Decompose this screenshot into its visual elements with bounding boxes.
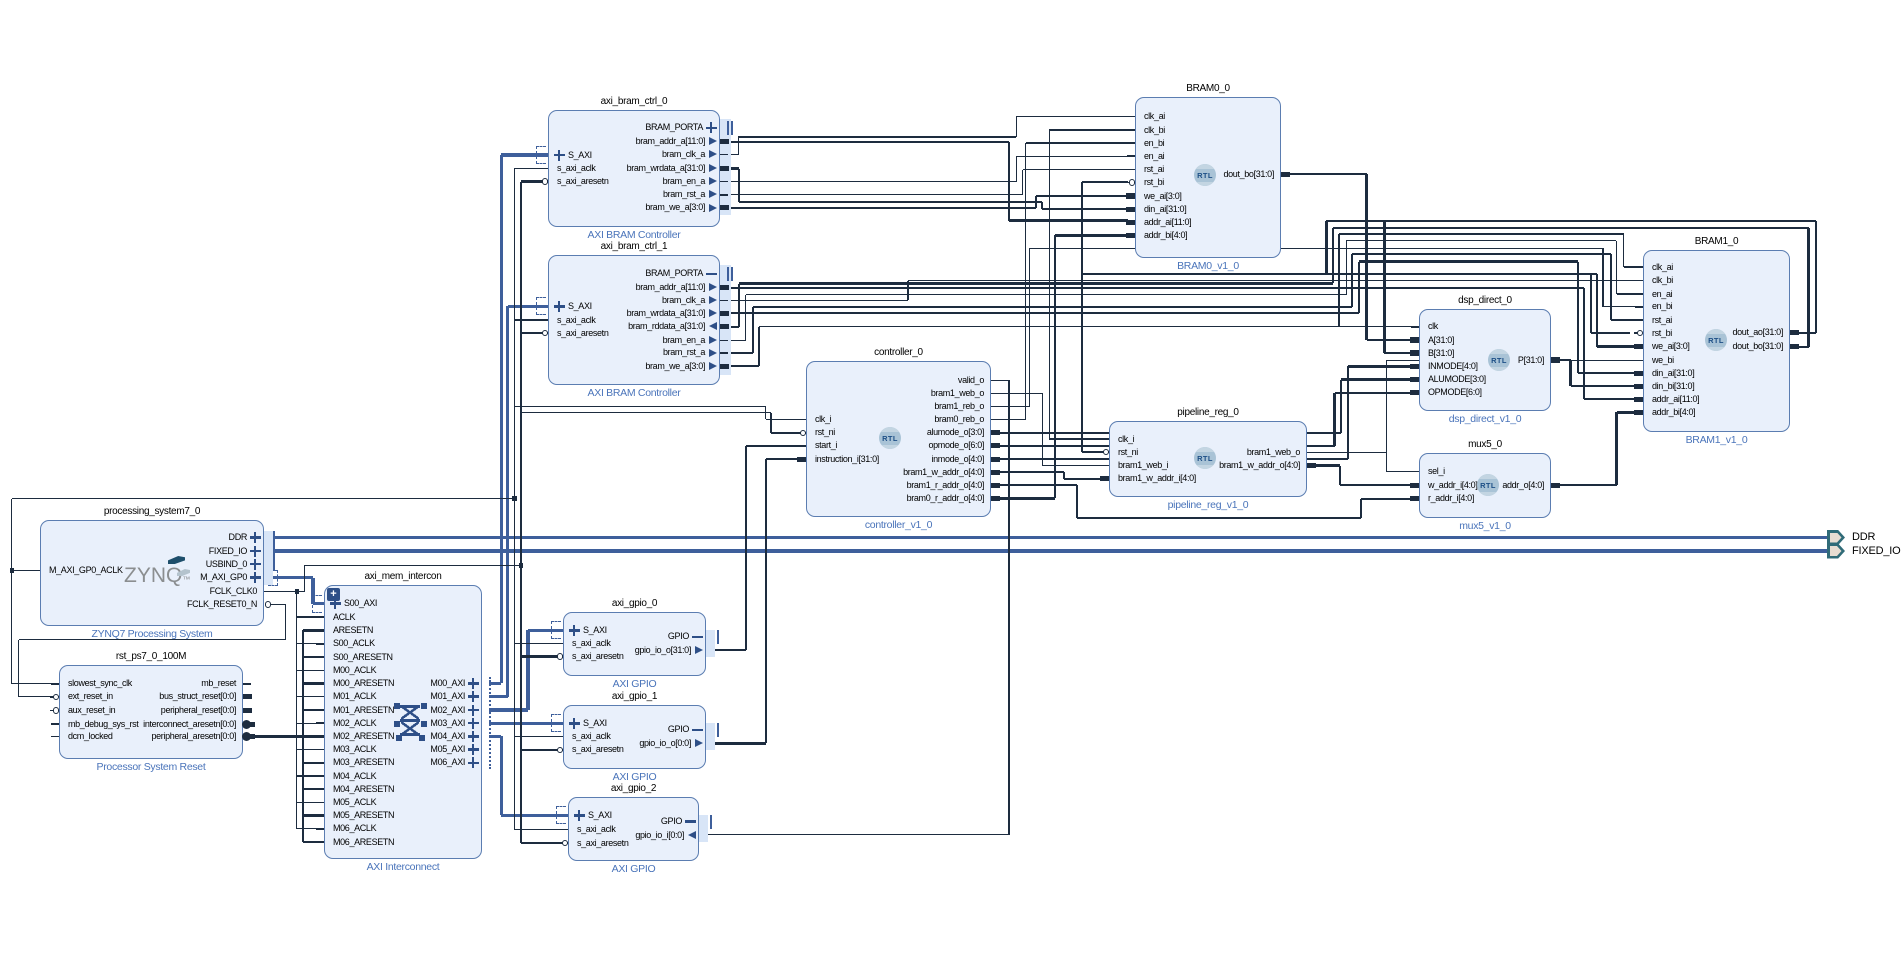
wire bram_ctrl_0 clk to BRAM0 clk_ai <box>0 0 1902 1</box>
wire controller bram0_r_addr_o to BRAM0 addr_bi <box>0 0 1902 1</box>
wire s_axi_aclk distribution <box>0 0 1902 1</box>
wire controller alumode_o to dsp ALUMODE <box>0 0 1902 1</box>
wire BRAM1 we_ai feed <box>0 0 1902 1</box>
wire bram_ctrl_1 rst to BRAM1 rst_ai <box>0 0 1902 1</box>
wire clk_ai feed BRAM1 <box>0 0 1902 1</box>
wire mux addr_o to BRAM1 addr_bi <box>0 0 1902 1</box>
wire controller bram0_reb_o to BRAM0 en_bi <box>0 0 1902 1</box>
wire bram_ctrl_1 clk to BRAM1 clk_bi <box>0 0 1902 1</box>
wire gpio_0 gpio_io_o to start_i <box>0 0 1902 1</box>
block rst_ps7_0_100M (rst_ps7_0_100M) <box>0 0 1902 1</box>
wire clock net BRAM0 clk_bi / dsp clk / pipeline clk_i <box>0 0 1902 1</box>
wire peripheral_aresetn to ARESETN pins <box>0 0 1902 1</box>
wire BRAM1 dout_bo return to bram_ctrl_1 rddata <box>0 0 1902 1</box>
block axi_mem_intercon (axi_mem_intercon) <box>0 0 1902 1</box>
interface shade axi_gpio_2 <box>699 815 708 842</box>
block controller_0 (controller_0) <box>0 0 1902 1</box>
wire controller opmode_o to dsp OPMODE <box>0 0 1902 1</box>
block axi_gpio_2 (axi_gpio_2) <box>0 0 1902 1</box>
block axi_gpio_0 (axi_gpio_0) <box>0 0 1902 1</box>
block BRAM1_0 (BRAM1_0) <box>0 0 1902 1</box>
external port FIXED_IO <box>0 0 1902 1</box>
wire M02_AXI to axi_gpio_0 S_AXI <box>0 0 1902 1</box>
wire bram_ctrl_1 addr to BRAM1 addr_ai <box>0 0 1902 1</box>
interface shade axi_gpio_1 <box>706 723 715 750</box>
wire bram_ctrl_0 we to BRAM0 we_ai <box>0 0 1902 1</box>
wire M03_AXI to axi_gpio_1 S_AXI <box>0 0 1902 1</box>
wire bram_ctrl_1 en to BRAM1 en_ai <box>0 0 1902 1</box>
block dsp_direct_0 (dsp_direct_0) <box>0 0 1902 1</box>
wire pipeline bram1_w_addr_o to mux w_addr_i <box>0 0 1902 1</box>
wire FCLK_RESET0_N to ext_reset_in <box>0 0 1902 1</box>
wire bram_ctrl_1 wrdata to BRAM1 din_ai <box>0 0 1902 1</box>
wire M01_AXI to axi_bram_ctrl_1 S_AXI <box>0 0 1902 1</box>
block axi_gpio_1 (axi_gpio_1) <box>0 0 1902 1</box>
wire M00_AXI to axi_bram_ctrl_0 S_AXI <box>0 0 1902 1</box>
wire BRAM0 dout_bo to dsp A <box>0 0 1902 1</box>
wire gpio_1 gpio_io_o to instruction_i <box>0 0 1902 1</box>
interface shade axi_gpio_0 <box>706 630 715 657</box>
block axi_bram_ctrl_0 (axi_bram_ctrl_0) <box>0 0 1902 1</box>
block axi_bram_ctrl_1 (axi_bram_ctrl_1) <box>0 0 1902 1</box>
wire M_AXI_GP0 to S00_AXI <box>0 0 1902 1</box>
wire bram_ctrl_0 addr to BRAM0 addr_ai <box>0 0 1902 1</box>
wire bram_ctrl_0 wrdata to BRAM0 din_ai <box>0 0 1902 1</box>
wire M04_AXI to axi_gpio_2 S_AXI <box>0 0 1902 1</box>
wire rst to controller rst_ni <box>0 0 1902 1</box>
wire controller bram1_w_addr_o to pipeline <box>0 0 1902 1</box>
interface shade processing_system7_0 <box>264 531 273 585</box>
wire BRAM1 dout_ao return to dsp B <box>0 0 1902 1</box>
wire reset net to BRAM0 rst_bi / BRAM1 rst_bi / pipeline rst_ni <box>0 0 1902 1</box>
wire controller valid_o to gpio_2 gpio_io_i <box>0 0 1902 1</box>
wire BRAM1 rst_bi feed <box>0 0 1902 1</box>
block BRAM0_0 (BRAM0_0) <box>0 0 1902 1</box>
block processing_system7_0 (processing_system7_0) <box>0 0 1902 1</box>
block mux5_0 (mux5_0) <box>0 0 1902 1</box>
wire FCLK_CLK0 net <box>0 0 1902 1</box>
wire bram_ctrl_0 en to BRAM0 en_ai <box>0 0 1902 1</box>
wire pipeline bram1_web_o to BRAM1 we_bi and mux sel_i <box>0 0 1902 1</box>
wire controller bram1_web_o to pipeline <box>0 0 1902 1</box>
wire controller bram1_reb_o to BRAM1 en_bi <box>0 0 1902 1</box>
external port DDR <box>0 0 1902 1</box>
wire dsp P to BRAM1 din_bi <box>0 0 1902 1</box>
wire FIXED_IO bus <box>0 0 1902 1</box>
wire ACLK distribution to axi_mem_intercon <box>0 0 1902 1</box>
wire controller bram1_r_addr_o to mux r_addr_i <box>0 0 1902 1</box>
wire s_axi_aresetn distribution <box>0 0 1902 1</box>
wire controller inmode_o to dsp INMODE <box>0 0 1902 1</box>
block pipeline_reg_0 (pipeline_reg_0) <box>0 0 1902 1</box>
wire clk to controller clk_i <box>0 0 1902 1</box>
interface shade axi_bram_ctrl_0 <box>720 119 731 215</box>
wire DDR bus <box>0 0 1902 1</box>
wire bram_ctrl_0 rst to BRAM0 rst_ai <box>0 0 1902 1</box>
interface shade axi_bram_ctrl_1 <box>720 265 731 375</box>
